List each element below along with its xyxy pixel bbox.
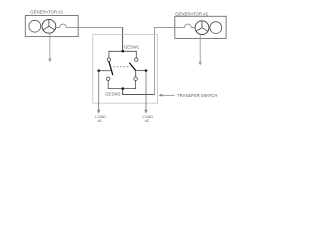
generator G1 exciter circle xyxy=(29,20,41,32)
generator G1 breaker bump and feed wire to node A xyxy=(56,24,123,27)
switch GESW2 top contact xyxy=(135,58,139,62)
svg-text:#2: #2 xyxy=(145,118,149,123)
generator G2 ground arrow xyxy=(198,62,202,66)
load 2 arrow xyxy=(144,110,148,114)
transfer switch callout arrow xyxy=(161,94,175,96)
switch GESW2 bottom contact stub wire xyxy=(135,71,137,77)
svg-text:TRANSFER SWITCH: TRANSFER SWITCH xyxy=(177,93,217,98)
switch GESW1 bottom contact xyxy=(106,77,110,81)
load 1 feeder wire xyxy=(98,71,100,111)
generator G2 ground wire xyxy=(199,35,201,62)
generator G1 box xyxy=(25,16,78,37)
switch GESW2 common bus wire xyxy=(136,70,146,72)
generator G1 ground wire xyxy=(49,33,51,59)
node LOAD2 junction dot xyxy=(145,69,148,72)
mechanical linkage dashed wire xyxy=(113,66,130,68)
switch GESW1 common bus wire xyxy=(99,70,111,72)
node B junction dot xyxy=(121,87,124,90)
generator G2 exciter circle xyxy=(210,22,222,34)
svg-text:GESW1: GESW1 xyxy=(124,44,140,49)
generator G2 box xyxy=(175,16,226,38)
load 2 feeder wire xyxy=(145,71,147,111)
generator G2 alternator circle with Y xyxy=(195,21,209,35)
switch GESW1 blade xyxy=(109,61,113,75)
generator G2 breaker bump and feed wire down to bottom bus xyxy=(154,24,195,95)
generator G1 alternator circle with Y xyxy=(42,19,56,33)
svg-text:#1: #1 xyxy=(98,118,102,123)
bottom contact bus wire xyxy=(108,81,135,89)
svg-text:GESW2: GESW2 xyxy=(105,92,121,97)
node LOAD1 junction dot xyxy=(97,69,100,72)
transfer switch enclosure box xyxy=(93,35,158,104)
switch GESW2 bottom contact xyxy=(134,77,138,81)
svg-text:GENERATOR #2: GENERATOR #2 xyxy=(175,11,208,16)
switch GESW1 top contact xyxy=(107,58,111,62)
top contact bus wire xyxy=(109,51,136,58)
svg-text:GENERATOR #1: GENERATOR #1 xyxy=(30,10,63,15)
load 1 arrow xyxy=(97,110,101,114)
node A junction dot xyxy=(121,50,124,53)
switch GESW2 blade xyxy=(129,63,136,71)
generator G1 ground arrow xyxy=(48,59,52,63)
